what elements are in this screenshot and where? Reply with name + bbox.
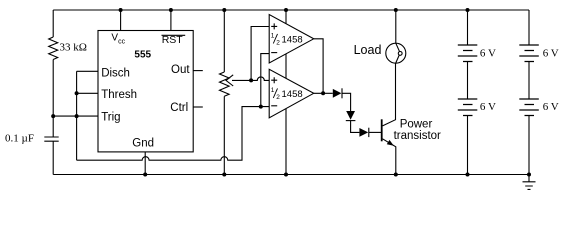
node lamp on rail — [394, 8, 398, 12]
wire top supply rail — [53, 9, 529, 11]
svg-text:Vcc: Vcc — [111, 33, 125, 46]
node trig junction on cap column — [51, 114, 55, 118]
wire right battery column from rail — [528, 10, 530, 45]
svg-text:1: 1 — [271, 33, 275, 40]
battery B4 6V — [519, 99, 539, 116]
wire between left batteries — [467, 62, 469, 100]
wire op-amp1 V+ from rail — [285, 10, 287, 24]
battery B2 6V — [458, 99, 478, 116]
transistor Q1 base bar — [381, 119, 383, 141]
node RST on rail — [169, 8, 173, 12]
node trig junction on tie column — [75, 114, 79, 118]
wire right battery to bottom rail — [528, 116, 530, 175]
wire lamp top — [395, 10, 397, 43]
node op2 V- on bottom rail — [284, 173, 288, 177]
svg-text:33 kΩ: 33 kΩ — [60, 42, 87, 54]
transistor emitter arrowhead — [387, 140, 394, 146]
svg-text:2: 2 — [276, 39, 280, 46]
wire op-amp2 V- to bottom rail — [285, 109, 287, 175]
svg-text:6 V: 6 V — [543, 47, 559, 59]
wire resistor to capacitor — [52, 60, 54, 138]
pin Out tick — [193, 70, 203, 72]
svg-text:Trig: Trig — [101, 112, 120, 124]
wire D1 to corner — [342, 93, 351, 111]
wire op-amp2 output row — [314, 92, 333, 94]
node outputs join — [321, 91, 325, 95]
wire between op-amp supplies — [285, 54, 287, 79]
IC U1 555 box — [98, 31, 193, 152]
transistor collector — [383, 63, 396, 126]
svg-text:Power: Power — [400, 119, 433, 131]
svg-text:6 V: 6 V — [480, 47, 496, 59]
svg-text:Load: Load — [354, 43, 382, 57]
op-amp2 plus sign — [271, 77, 277, 83]
pin Ctrl tick — [193, 106, 203, 108]
transistor emitter — [383, 139, 396, 175]
node op1 V+ on rail — [284, 8, 288, 12]
pin Vcc tick — [120, 10, 122, 31]
lamp filament — [396, 43, 400, 63]
node thresh junction — [75, 91, 79, 95]
wire between right batteries — [528, 62, 530, 100]
svg-text:RST: RST — [162, 34, 184, 46]
capacitor C1 0.1 uF — [44, 137, 58, 141]
wire left column top (rail to resistor) — [52, 10, 54, 37]
svg-text:1: 1 — [271, 87, 275, 94]
op-amp U2b 1458 triangle — [269, 69, 314, 118]
op-amp1 plus sign — [271, 23, 277, 29]
svg-text:0.1 µF: 0.1 µF — [5, 133, 34, 145]
svg-text:2: 2 — [276, 94, 280, 101]
wire tie vertical disch-thresh-trig — [76, 71, 78, 160]
wire threshold branch — [77, 92, 99, 94]
svg-text:1458: 1458 — [282, 89, 303, 100]
wire discharge branch — [77, 70, 99, 72]
pin RST tick — [170, 10, 172, 31]
pin Gnd tick — [144, 152, 146, 175]
op-amp1 minus sign — [271, 52, 277, 54]
svg-text:Out: Out — [171, 64, 190, 76]
node pot bottom on rail — [222, 173, 226, 177]
svg-text:1458: 1458 — [282, 34, 303, 45]
svg-text:Thresh: Thresh — [101, 89, 137, 101]
node Gnd on bottom rail — [143, 173, 147, 177]
wire under-box run to op-amp2 inverting input — [77, 107, 270, 161]
wire D3 to transistor base — [369, 131, 381, 133]
svg-text:555: 555 — [134, 49, 151, 60]
potentiometer bottom wire — [223, 96, 225, 174]
node Vcc on rail — [119, 8, 123, 12]
wire op-amp1 output down — [314, 39, 323, 94]
svg-text:Gnd: Gnd — [132, 138, 154, 150]
potentiometer column top wire — [223, 10, 225, 72]
wire capacitor to bottom rail — [52, 141, 54, 174]
wire wiper to op-amp2 non-inverting input (with hop) — [254, 77, 269, 81]
node wiper branch — [249, 78, 253, 82]
node left battery on bottom rail — [466, 173, 470, 177]
wire bottom ground rail — [53, 174, 529, 176]
battery B1 6V — [458, 45, 478, 62]
svg-text:Disch: Disch — [101, 68, 130, 80]
node left battery on rail — [466, 8, 470, 12]
lamp Load circle — [386, 43, 406, 63]
diode D2 — [346, 111, 355, 120]
resistor R1 33 kOhm — [49, 37, 58, 60]
ground symbol — [523, 175, 536, 190]
battery B3 6V — [519, 45, 539, 62]
op-amp U2a 1458 triangle — [269, 15, 314, 64]
node emitter on bottom rail — [394, 173, 398, 177]
potentiometer R2 zigzag — [220, 72, 230, 96]
node pot top on rail — [222, 8, 226, 12]
svg-text:transistor: transistor — [394, 130, 441, 142]
svg-text:6 V: 6 V — [543, 101, 559, 113]
svg-text:Ctrl: Ctrl — [170, 102, 188, 114]
potentiometer wiper arrow — [226, 75, 254, 86]
label op-amp2 half 1458 — [271, 87, 303, 101]
node op1 inverting joins op2 inverting wire — [259, 105, 263, 109]
diode D1 — [333, 89, 342, 98]
wire trigger run — [53, 115, 98, 117]
wire left battery to bottom rail — [467, 116, 469, 175]
wire left battery column from rail — [467, 10, 469, 45]
node right battery on bottom rail — [527, 173, 531, 177]
wire D2 to corner to D3 — [351, 121, 360, 133]
wire wiper branch up to op-amp1 non-inverting input — [251, 27, 269, 81]
diode D3 — [359, 128, 368, 137]
wire op-amp1 inverting input down to op2 inverting node — [261, 54, 269, 107]
op-amp2 minus sign — [271, 105, 277, 107]
label op-amp1 half 1458 — [271, 33, 303, 47]
svg-text:6 V: 6 V — [480, 101, 496, 113]
